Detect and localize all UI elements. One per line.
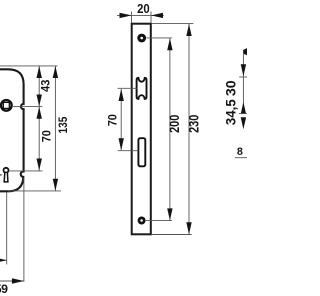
latch axis extension line xyxy=(118,87,137,89)
svg-text:30: 30 xyxy=(224,80,240,96)
arrow pointing right (cropped horizontal dimension) xyxy=(243,48,247,56)
dimension line backset xyxy=(0,259,7,261)
small mark at left edge near keyhole xyxy=(0,174,3,177)
follower axis extension line xyxy=(13,106,42,108)
extension line backset xyxy=(6,192,8,264)
extension lines 20 xyxy=(131,12,133,23)
deadbolt axis extension line xyxy=(118,150,138,152)
arrow down (bottom of 34,5) xyxy=(241,117,246,129)
svg-text:230: 230 xyxy=(186,115,201,133)
deadbolt cutout xyxy=(138,138,145,166)
keyhole xyxy=(4,168,9,173)
dimension line depth xyxy=(0,280,24,282)
svg-text:34,5: 34,5 xyxy=(223,99,239,125)
follower square spindle hub xyxy=(1,100,12,111)
dimension line 200 xyxy=(169,38,171,220)
bottom screw hole xyxy=(138,217,146,225)
svg-text:135: 135 xyxy=(56,116,70,133)
svg-text:70: 70 xyxy=(105,114,119,127)
top screw extension line xyxy=(146,37,172,39)
arrow down (top of 30, outside) xyxy=(241,64,246,76)
bottom screw extension line xyxy=(146,220,172,222)
tick line xyxy=(239,113,247,115)
dimension line 20 xyxy=(117,14,164,16)
svg-text:70: 70 xyxy=(39,130,53,143)
plate top extension line xyxy=(152,23,194,25)
dimension line 43/70 xyxy=(38,66,40,171)
latch cutout xyxy=(137,78,147,99)
svg-text:20: 20 xyxy=(137,2,150,16)
svg-text:43: 43 xyxy=(38,79,52,92)
lock case outline xyxy=(0,69,24,191)
faceplate outline xyxy=(132,24,151,235)
svg-text:200: 200 xyxy=(167,115,182,133)
dimension line 135 xyxy=(54,66,56,191)
extension line case bottom xyxy=(8,190,61,192)
dimension line 8 xyxy=(235,157,247,159)
keyhole axis extension line xyxy=(10,170,43,172)
top screw hole xyxy=(137,34,146,43)
plate bottom extension line xyxy=(152,234,192,236)
tick line 30-dim top xyxy=(239,76,247,78)
arrow up (bottom of 30, outside) xyxy=(241,102,246,114)
dimension line 70 (faceplate) xyxy=(120,89,122,150)
extension line top (case top) xyxy=(0,65,58,67)
svg-text:8: 8 xyxy=(237,146,243,158)
extension line case depth xyxy=(23,178,25,282)
dimension line 230 xyxy=(188,24,190,234)
vertical dimension line 30/34,5 xyxy=(242,54,244,114)
svg-text:59: 59 xyxy=(0,282,8,296)
